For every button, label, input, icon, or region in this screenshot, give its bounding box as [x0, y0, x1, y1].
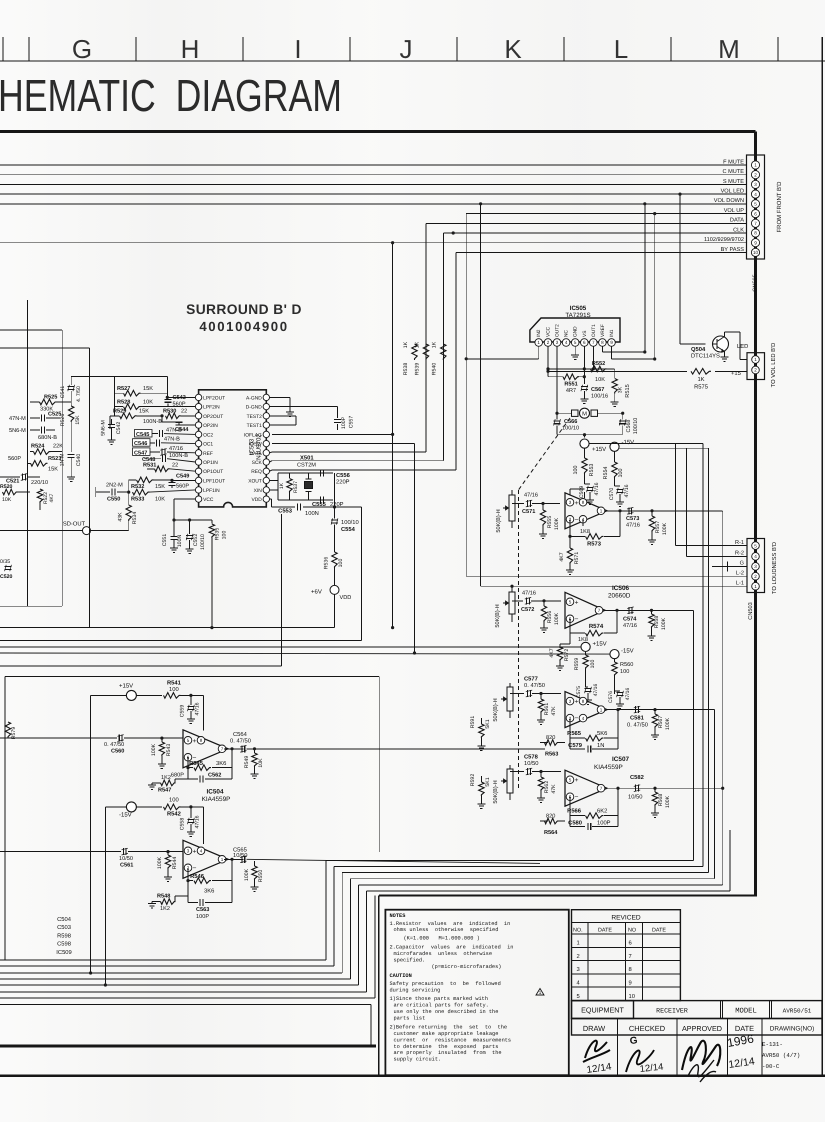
wire loop net 7 — [0, 896, 375, 999]
label R558 100K — [654, 616, 667, 630]
svg-text:4K7: 4K7 — [559, 552, 565, 561]
resistor R551 — [548, 374, 584, 380]
svg-text:1N: 1N — [597, 743, 604, 749]
wire +15V rail right — [589, 443, 703, 445]
svg-text:R541: R541 — [167, 681, 182, 687]
svg-text:MODEL: MODEL — [735, 1008, 757, 1016]
svg-text:50K(B)-H: 50K(B)-H — [494, 604, 501, 627]
svg-text:R553: R553 — [589, 464, 595, 477]
label 2N2-M C550 — [106, 483, 123, 503]
label 1N-M C540 — [60, 454, 83, 467]
title block left edge — [378, 896, 380, 1076]
svg-text:C551: C551 — [162, 534, 168, 547]
label CN503 — [748, 602, 754, 619]
svg-text:3K: 3K — [618, 386, 624, 393]
svg-text:during servicing: during servicing — [390, 987, 441, 993]
capacitor C562 680P — [186, 766, 232, 782]
svg-text:+: + — [193, 848, 197, 855]
wire loudness net L-1 — [481, 585, 747, 587]
svg-text:C558: C558 — [180, 818, 186, 831]
svg-text:R546: R546 — [190, 873, 205, 880]
svg-text:0. 47/50: 0. 47/50 — [104, 741, 124, 748]
resistor R522 4K7 — [37, 489, 55, 510]
thick partial line above bottom border — [0, 1045, 376, 1048]
resistor R565 5K6 — [586, 735, 604, 741]
svg-text:C562: C562 — [208, 772, 221, 778]
svg-text:+: + — [575, 599, 579, 606]
svg-text:VDD: VDD — [251, 497, 262, 503]
svg-text:NO: NO — [628, 928, 636, 934]
svg-text:R555: R555 — [547, 516, 553, 529]
label 680P C562 — [171, 772, 221, 778]
svg-text:4. 7/50: 4. 7/50 — [76, 386, 82, 402]
label C580 100P — [568, 820, 611, 827]
svg-text:R534: R534 — [132, 512, 138, 525]
svg-text:R543: R543 — [166, 744, 172, 757]
svg-text:1K: 1K — [697, 377, 704, 383]
svg-text:IC505: IC505 — [570, 305, 587, 312]
label R551 4R7 — [564, 382, 577, 395]
wire left board box — [0, 300, 89, 628]
svg-text:4R7: 4R7 — [566, 388, 576, 394]
svg-text:Safety precaution to be fol: Safety precaution to be followed — [390, 981, 501, 987]
svg-text:R575: R575 — [694, 385, 708, 391]
label R540 1K — [432, 341, 438, 375]
sheet bottom border — [0, 1075, 825, 1077]
svg-text:47/16: 47/16 — [195, 702, 201, 715]
svg-text:APPROVED: APPROVED — [682, 1024, 722, 1033]
label R555 100K — [547, 516, 560, 530]
label 10/50 C561 — [119, 855, 133, 869]
op-amp IC507 upper — [565, 692, 607, 728]
svg-text:C560: C560 — [111, 749, 124, 755]
svg-text:F MUTE: F MUTE — [723, 159, 744, 165]
label C552 100/10 — [193, 534, 206, 550]
svg-text:820: 820 — [546, 735, 555, 741]
label 100 R542 — [167, 797, 181, 818]
svg-text:C547: C547 — [134, 450, 147, 456]
svg-text:C564: C564 — [233, 731, 248, 738]
connector TO VOL LED B'D pins — [752, 356, 760, 374]
wire IC503 feedback top — [71, 377, 167, 429]
svg-text:1K: 1K — [415, 341, 421, 348]
wire loudness net G — [712, 562, 747, 572]
svg-text:X501: X501 — [300, 455, 314, 462]
svg-text:R557: R557 — [655, 521, 661, 534]
svg-text:supply circuit.: supply circuit. — [394, 1057, 442, 1063]
label LED — [737, 344, 748, 350]
svg-text:10: 10 — [753, 250, 759, 255]
label C568 100/10 — [626, 418, 639, 435]
svg-text:1: 1 — [600, 508, 603, 513]
svg-text:R539: R539 — [415, 363, 421, 376]
svg-text:L: L — [614, 34, 628, 64]
svg-text:47/16: 47/16 — [593, 684, 599, 697]
svg-text:50K(B)-H: 50K(B)-H — [495, 509, 502, 532]
label R529 15K — [113, 408, 149, 414]
node -15V mid — [610, 439, 634, 462]
label 100N-B C544 — [143, 419, 189, 433]
label R571 4K7 — [559, 552, 580, 565]
svg-text:R528: R528 — [117, 399, 130, 405]
svg-text:2)Before returning the set: 2)Before returning the set to the — [390, 1025, 508, 1031]
svg-text:LPF2OUT: LPF2OUT — [203, 395, 225, 401]
svg-text:R568: R568 — [658, 794, 664, 807]
label C559 47/16 — [180, 702, 201, 717]
svg-text:50K(B)-H: 50K(B)-H — [492, 780, 499, 803]
svg-text:47/16: 47/16 — [195, 815, 201, 828]
revised table text — [573, 915, 666, 1000]
wire -15V rail right — [619, 447, 709, 449]
label R574 1K8 — [578, 623, 604, 643]
svg-text:R574: R574 — [589, 623, 604, 630]
svg-text:1: 1 — [221, 857, 224, 862]
capacitor C575 — [584, 687, 592, 705]
label 100P C557 — [341, 416, 355, 429]
svg-text:3: 3 — [577, 966, 580, 973]
svg-text:CST2M: CST2M — [297, 463, 316, 469]
svg-text:DRAWING(NO): DRAWING(NO) — [770, 1026, 815, 1033]
potentiometer 50K(B)-H gang4 — [501, 765, 513, 800]
svg-text:1: 1 — [537, 340, 540, 345]
svg-text:C576: C576 — [608, 691, 614, 703]
label 100K R550 — [244, 868, 264, 882]
capacitor C573 — [627, 507, 654, 514]
label R568 100K — [658, 794, 671, 808]
resistor R535 100 — [209, 524, 214, 629]
signature approved — [682, 1041, 720, 1082]
sheet right border — [821, 37, 823, 1076]
label 100K R543 — [151, 743, 172, 756]
svg-text:220P: 220P — [336, 479, 350, 486]
svg-text:1K2: 1K2 — [160, 906, 170, 912]
node +6V VDD — [311, 585, 351, 601]
svg-text:R-2: R-2 — [735, 551, 744, 557]
svg-text:R564: R564 — [544, 830, 558, 836]
label X501 CST2M — [297, 455, 316, 469]
svg-text:G: G — [629, 1035, 638, 1047]
svg-text:C543: C543 — [173, 395, 186, 401]
label C576 47/16 — [608, 688, 631, 703]
svg-text:10: 10 — [629, 993, 635, 1000]
svg-text:C559: C559 — [180, 705, 186, 718]
label C566 100/10 — [562, 419, 579, 432]
svg-text:NOTES: NOTES — [390, 913, 407, 919]
label 820 R563 — [545, 735, 558, 758]
capacitor C566 — [554, 413, 561, 435]
resistor R540 1K — [441, 344, 446, 360]
resistor R553 — [582, 448, 587, 484]
svg-text:R552: R552 — [592, 361, 605, 367]
svg-text:1: 1 — [754, 584, 757, 589]
wire +15 feed to LED connector pin 2 — [546, 370, 747, 373]
resistor R537 1K — [287, 473, 292, 500]
label C548 100N-B — [142, 453, 188, 463]
capacitor C548 100N-B — [144, 455, 195, 462]
capacitor C561 10/50 — [0, 848, 183, 855]
resistor R524 22K — [30, 444, 63, 455]
node +15V lower — [581, 641, 607, 656]
wire A-GND D-GND stubs — [270, 397, 295, 416]
svg-text:680N-B: 680N-B — [38, 435, 57, 441]
wire op-amp A output — [570, 509, 723, 536]
wire loop net 5 — [0, 511, 723, 985]
svg-text:1.Resistor values are indic: 1.Resistor values are indicated in — [390, 921, 511, 927]
label C567 100/16 — [591, 387, 608, 400]
svg-text:100N: 100N — [305, 510, 319, 517]
svg-text:R525: R525 — [44, 394, 57, 400]
label C545 47N-B — [135, 427, 183, 438]
label R548 1K2 — [157, 894, 170, 912]
capacitor C581 — [634, 706, 657, 713]
IC503 left pin labels — [203, 395, 225, 503]
label R525 330K — [40, 394, 57, 412]
connector CN505 pins 1-10 — [751, 161, 759, 257]
capacitor C576 — [615, 691, 625, 709]
svg-text:VS: VS — [582, 331, 588, 337]
svg-text:C541: C541 — [60, 386, 66, 399]
svg-text:L-1: L-1 — [736, 580, 744, 586]
svg-text:C578: C578 — [524, 754, 539, 761]
signature date 1996 12/14 — [726, 1031, 756, 1070]
svg-text:47/16: 47/16 — [624, 484, 630, 497]
resistor R547 1K2 — [148, 779, 188, 789]
motor M — [555, 408, 624, 418]
svg-text:C598: C598 — [57, 941, 71, 948]
IC503 right pin labels — [244, 395, 263, 503]
ground Q504 emitter — [721, 352, 729, 362]
resistor R549 10K — [251, 747, 259, 778]
svg-text:M: M — [718, 34, 740, 64]
label C565 10/50 — [233, 847, 248, 860]
sheet column ruler line — [0, 60, 825, 62]
label R549 10K — [244, 756, 264, 769]
svg-text:47/16: 47/16 — [522, 590, 536, 597]
svg-text:C567: C567 — [591, 387, 604, 393]
resistor R546 3K6 — [194, 878, 211, 884]
capacitor C547 47/16 — [136, 449, 195, 456]
svg-text:100: 100 — [620, 669, 629, 675]
resistor R531 22 — [147, 466, 195, 472]
wire IC505 pin 8 VREF tap — [602, 346, 646, 353]
svg-text:R558: R558 — [654, 616, 660, 629]
label 50K(B)-H gang4 — [492, 780, 499, 803]
svg-text:−: − — [575, 516, 579, 523]
svg-text:R523: R523 — [48, 456, 61, 462]
svg-text:+15V: +15V — [119, 683, 133, 690]
capacitor C552 100/10 — [186, 518, 194, 553]
wire -15V bus lower — [0, 653, 610, 654]
label IC507 KIA4559P — [594, 756, 629, 771]
svg-text:C504: C504 — [57, 916, 72, 923]
svg-text:R550: R550 — [258, 870, 264, 883]
label 1K R537 — [279, 481, 299, 493]
svg-text:10K: 10K — [143, 399, 153, 405]
notes text — [390, 913, 514, 1062]
wire IC505 pin 9 IN1 tap — [612, 346, 657, 360]
svg-text:4: 4 — [200, 848, 203, 853]
svg-text:−: − — [193, 865, 197, 872]
svg-text:100: 100 — [573, 466, 579, 475]
svg-text:3K6: 3K6 — [204, 887, 214, 894]
wire loudness net R-2 — [686, 448, 747, 556]
capacitor C543 560P — [165, 396, 172, 407]
svg-text:2: 2 — [754, 368, 757, 373]
wire TEST stubs — [270, 416, 297, 425]
wire VOL LED net — [0, 193, 747, 345]
label R526 15K — [60, 414, 81, 427]
svg-text:R529: R529 — [113, 408, 126, 414]
label R565 5K6 — [567, 730, 607, 737]
svg-text:100/10: 100/10 — [633, 418, 639, 435]
svg-text:0/35: 0/35 — [0, 559, 10, 565]
resistor R564 820 — [540, 818, 565, 824]
resistor R543 100K — [158, 737, 166, 769]
svg-text:4: 4 — [754, 192, 757, 197]
label FROM FRONT B'D — [776, 181, 783, 233]
svg-text:R591: R591 — [470, 716, 476, 729]
svg-text:3K6: 3K6 — [216, 760, 226, 767]
label R557 100K — [655, 521, 668, 535]
resistor R575 — [691, 369, 711, 375]
svg-text:C550: C550 — [107, 497, 120, 503]
svg-text:4001004900: 4001004900 — [199, 319, 288, 334]
label R573 1K8 — [580, 529, 602, 548]
svg-text:D-GND: D-GND — [246, 405, 262, 411]
wire loop net 2 — [0, 444, 703, 966]
svg-text:4K7: 4K7 — [549, 648, 555, 657]
svg-text:22K: 22K — [53, 444, 63, 450]
label R536 100 — [324, 557, 345, 570]
svg-text:100K: 100K — [665, 717, 671, 730]
svg-text:R533: R533 — [131, 497, 144, 503]
resistor R544 100K — [164, 850, 172, 881]
svg-text:+: + — [575, 500, 579, 507]
resistor R529 15K — [110, 413, 162, 419]
svg-text:C553: C553 — [278, 508, 293, 515]
resistor R532 15K — [129, 477, 172, 483]
svg-text:ohms unless otherwise specif: ohms unless otherwise specified — [394, 927, 499, 933]
svg-text:OUT1: OUT1 — [591, 324, 597, 337]
svg-text:7: 7 — [598, 608, 601, 613]
svg-text:2: 2 — [754, 172, 757, 177]
label C569 47/16 — [579, 482, 600, 498]
label C543 560P — [173, 395, 186, 408]
wire VCC pin down — [172, 499, 212, 533]
svg-text:3: 3 — [187, 848, 190, 853]
resistor R548 1K2 — [148, 896, 188, 908]
svg-text:DATA: DATA — [730, 218, 744, 224]
label Q504 DTC114YS — [691, 346, 720, 360]
wire S MUTE net — [0, 183, 747, 185]
resistor R528 10K — [114, 404, 195, 410]
wire loop net 8 — [0, 1005, 371, 1047]
resistor R579 left edge — [5, 722, 17, 739]
svg-text:C572: C572 — [521, 607, 534, 613]
label C541 4.7/50 — [60, 386, 82, 402]
svg-text:EQUIPMENT: EQUIPMENT — [581, 1006, 624, 1015]
wire loop net 1 — [0, 610, 694, 960]
wire DATA net — [272, 223, 747, 452]
svg-text:DATA: DATA — [249, 451, 262, 457]
svg-text:6: 6 — [629, 940, 632, 947]
label IC503 NJU9702 rotated — [249, 434, 263, 460]
wire VOL LED to Q504 base — [680, 343, 706, 345]
label R541 100 — [167, 681, 182, 694]
svg-text:LPF1IN: LPF1IN — [203, 488, 220, 494]
svg-text:R535: R535 — [215, 528, 221, 541]
capacitor C567 — [580, 385, 588, 404]
label R545 3K6 — [189, 760, 226, 767]
svg-text:+15V: +15V — [593, 641, 607, 648]
svg-text:47N-M: 47N-M — [9, 416, 26, 422]
svg-text:REF: REF — [203, 451, 213, 457]
wire VDD bus — [0, 598, 335, 628]
svg-text:C579: C579 — [568, 742, 583, 749]
wire IC504 upper output — [188, 747, 243, 767]
wire IC505 pin 1 IN2 net — [465, 346, 539, 360]
capacitor C571 — [512, 500, 560, 507]
svg-text:2.Capacitor values are indi: 2.Capacitor values are indicated in — [390, 945, 514, 951]
label R560 100 — [620, 662, 633, 675]
svg-text:current or resistance measu: current or resistance measurements — [394, 1037, 512, 1043]
svg-text:560P: 560P — [8, 456, 21, 462]
svg-text:7: 7 — [629, 954, 632, 960]
svg-text:microfarades unless otherwis: microfarades unless otherwise — [394, 951, 493, 957]
svg-text:47K: 47K — [551, 784, 557, 794]
svg-text:5N6-M: 5N6-M — [101, 420, 107, 436]
svg-text:TEST1: TEST1 — [247, 423, 262, 429]
svg-text:R559: R559 — [574, 658, 580, 671]
svg-text:R-1: R-1 — [735, 540, 744, 546]
label C564 0.47/50 — [230, 731, 251, 744]
label C556 220P — [336, 472, 351, 486]
connector CN503 pins — [752, 542, 760, 590]
svg-text:LPF1OUT: LPF1OUT — [203, 478, 225, 484]
svg-text:1K: 1K — [403, 341, 409, 348]
svg-text:VOL UP: VOL UP — [724, 208, 745, 214]
resistor R554 — [612, 462, 617, 486]
svg-text:10/50: 10/50 — [628, 794, 643, 801]
svg-text:REVICED: REVICED — [611, 915, 641, 922]
svg-text:M: M — [582, 411, 587, 417]
svg-text:R565: R565 — [567, 730, 582, 737]
capacitor C559 47/16 — [187, 694, 195, 724]
svg-text:+: + — [575, 777, 579, 784]
CN505 pin name labels — [704, 159, 744, 252]
svg-text:C563: C563 — [196, 907, 209, 913]
label R552 10K — [592, 361, 605, 383]
label 43K R534 — [118, 512, 139, 525]
transistor Q504 — [713, 336, 729, 352]
thick schematic frame top edge — [0, 130, 756, 133]
IC503 body outline — [199, 390, 267, 507]
capacitor C569 — [585, 484, 595, 504]
svg-text:G: G — [740, 561, 744, 567]
label 50K(B)-H gang3 — [492, 698, 499, 721]
resistor R534 43K — [126, 492, 131, 530]
wire IC505 pin 3 OUT2 net — [556, 346, 558, 413]
svg-text:Q504: Q504 — [691, 346, 706, 353]
svg-text:OUT2: OUT2 — [555, 324, 561, 337]
svg-text:5: 5 — [569, 777, 572, 782]
label R538 1K — [403, 341, 409, 375]
svg-text:100N-B: 100N-B — [169, 453, 188, 459]
wire VOL DOWN net — [0, 202, 747, 586]
svg-text:NO.: NO. — [573, 928, 583, 934]
label IC504 KIA4559P — [202, 789, 231, 803]
svg-text:to determine the exposed pa: to determine the exposed parts — [394, 1044, 499, 1050]
